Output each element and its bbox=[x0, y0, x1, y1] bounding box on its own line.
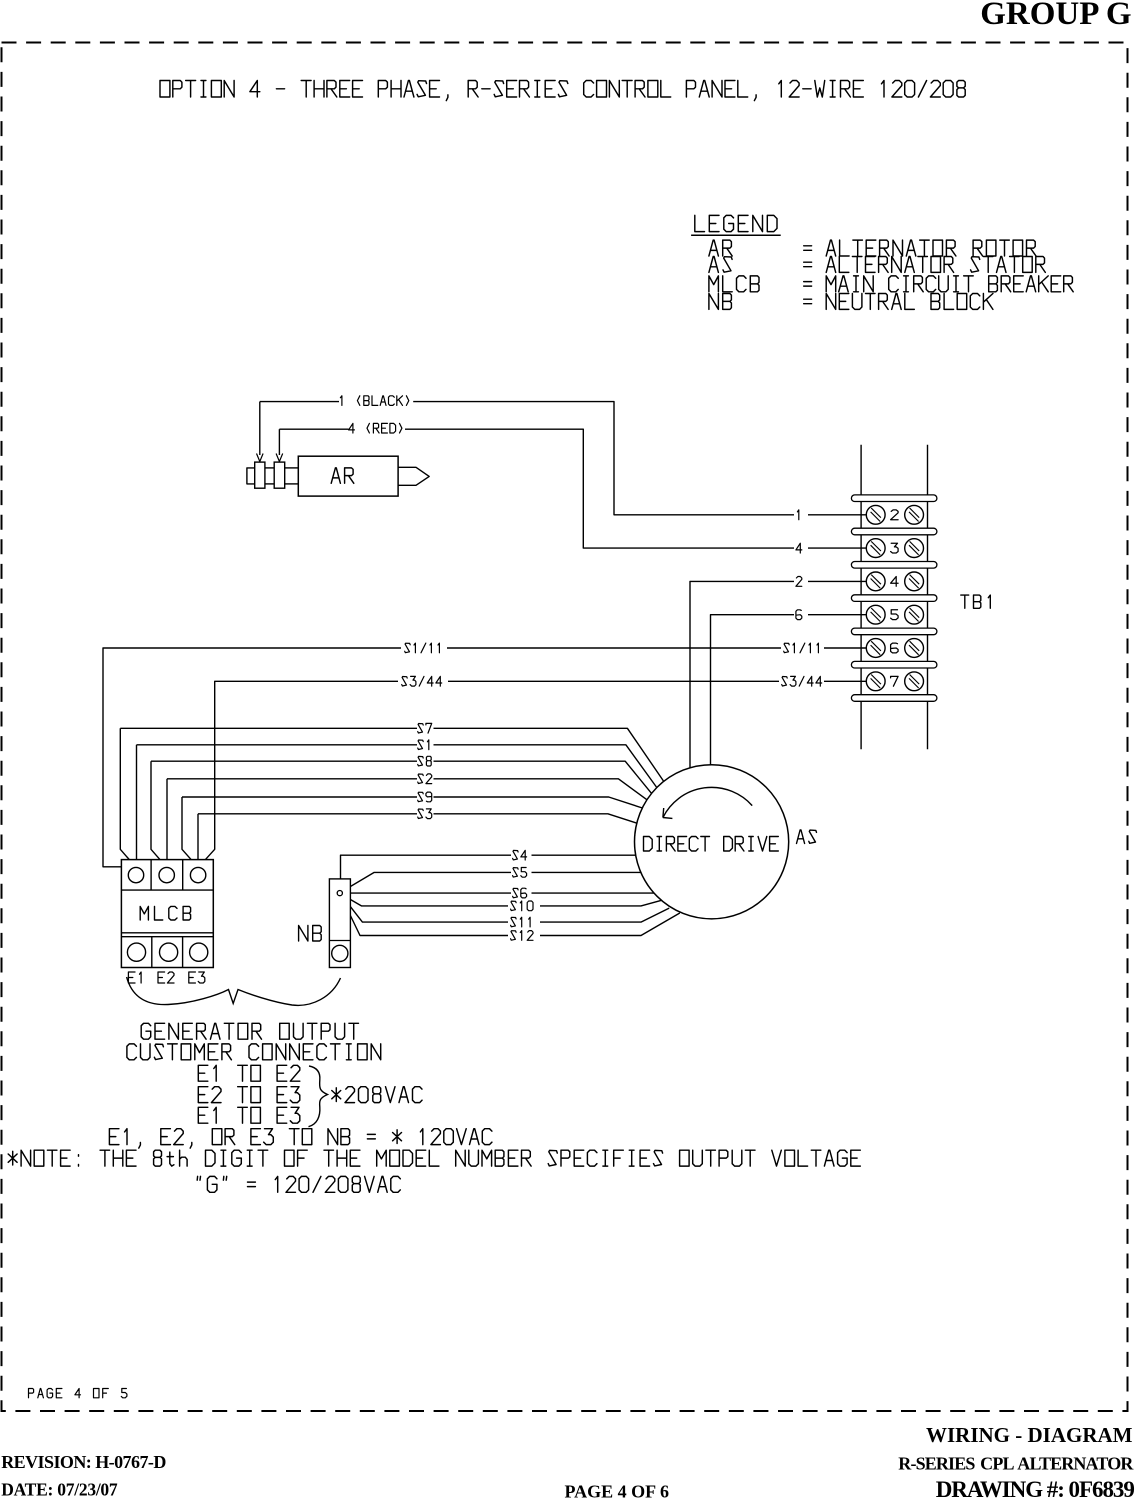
AR shaft segment to body bbox=[285, 467, 299, 469]
page number sheet text bbox=[29, 1389, 127, 1398]
wire S12 from NB node bbox=[341, 896, 508, 936]
wire S1 label bbox=[418, 740, 429, 750]
wire S3 to stator circle bbox=[434, 814, 637, 823]
TB1 terminal number 3 bbox=[891, 543, 899, 553]
svg-text:GROUP G: GROUP G bbox=[980, 0, 1131, 32]
TB1 terminal 4 right screw bbox=[905, 572, 924, 591]
wire S2 label bbox=[418, 774, 432, 784]
legend row NB bbox=[709, 294, 732, 310]
wire S3 horizontal bbox=[198, 813, 417, 815]
E3 label bbox=[189, 972, 205, 983]
MLCB top row dividers bbox=[121, 889, 213, 891]
wire S11 to stator circle bbox=[540, 908, 669, 922]
wire S4 from NB node bbox=[341, 855, 512, 891]
note 120VAC bbox=[109, 1129, 492, 1148]
TB1 terminal number 4 bbox=[891, 577, 899, 587]
alternator stator AS direct-drive circle bbox=[635, 765, 789, 919]
wire S7 to stator circle bbox=[434, 728, 664, 781]
E2 label bbox=[158, 972, 174, 983]
legend heading bbox=[695, 215, 777, 231]
svg-text:DRAWING #: 0F6839: DRAWING #: 0F6839 bbox=[936, 1477, 1135, 1502]
TB1 terminal 2 left screw bbox=[866, 505, 885, 524]
MLCB top terminal E2 circle bbox=[159, 867, 174, 882]
TB1 left rail bbox=[860, 445, 862, 750]
svg-text:R-SERIES CPL ALTERNATOR: R-SERIES CPL ALTERNATOR bbox=[898, 1454, 1134, 1474]
AR shaft left stub bbox=[247, 468, 255, 484]
wire S3/44 middle segment bbox=[448, 680, 779, 682]
wire S1 horizontal bbox=[137, 744, 418, 746]
wire S5 label bbox=[513, 868, 527, 878]
wire S3/44 from MLCB to TB1 terminal 7 bbox=[198, 681, 398, 867]
legend row AS bbox=[709, 257, 732, 273]
wire S8 label bbox=[418, 756, 432, 766]
wire S9 horizontal bbox=[182, 796, 417, 798]
wire S3 label bbox=[418, 809, 432, 819]
wire 4 to TB1 terminal 3 bbox=[405, 429, 794, 548]
svg-text:DATE: 07/23/07: DATE: 07/23/07 bbox=[1, 1480, 118, 1500]
MLCB bottom terminal E3 circle bbox=[190, 943, 208, 961]
wire S1/11 from MLCB to TB1 terminal 6 bbox=[103, 648, 401, 867]
wire S6 from NB node bbox=[344, 892, 511, 894]
wire S10 label bbox=[511, 901, 533, 911]
svg-text:PAGE 4 OF 6: PAGE 4 OF 6 bbox=[565, 1481, 670, 1501]
wire 1 to TB1 terminal 2 bbox=[413, 402, 794, 515]
wire S3 vertical into MLCB E3 bbox=[197, 814, 199, 868]
NB label bbox=[299, 926, 322, 942]
MLCB label bbox=[140, 906, 190, 920]
MLCB top terminal E1 circle bbox=[128, 867, 143, 882]
wire S5 to stator circle bbox=[532, 871, 641, 873]
wire S1/11 middle segment bbox=[447, 647, 781, 649]
TB1 terminal number 2 bbox=[891, 510, 899, 520]
wire S8 to stator circle bbox=[434, 761, 654, 796]
customer connection text bbox=[127, 1044, 381, 1060]
TB1 terminal 7 left screw bbox=[866, 672, 885, 691]
wire 1 arrow into slip ring 1 bbox=[259, 402, 261, 455]
TB1 terminal number 6 bbox=[891, 643, 899, 653]
TB1 terminal 3 right screw bbox=[905, 539, 924, 558]
TB1 terminal 3 left screw bbox=[866, 539, 885, 558]
wire S12 to stator circle bbox=[540, 913, 680, 936]
main line circuit breaker MLCB box bbox=[121, 860, 213, 968]
wire S1 to stator circle bbox=[434, 745, 658, 789]
wire S7 label bbox=[418, 723, 432, 733]
E1 label bbox=[128, 972, 141, 983]
wire S4 to stator circle bbox=[532, 854, 636, 856]
TB1 terminal 5 left screw bbox=[866, 605, 885, 624]
wire 4 label bbox=[349, 423, 402, 433]
wire S11 label bbox=[511, 917, 530, 927]
wire S9 to stator circle bbox=[434, 797, 643, 808]
AR slip ring 1 bbox=[255, 462, 265, 488]
wire 2 from TB1 terminal 4 to stator bbox=[808, 580, 866, 582]
MLCB bottom row dividers bbox=[121, 932, 213, 934]
NB connection node bbox=[337, 891, 342, 896]
wire 4 arrow into slip ring 2 bbox=[278, 429, 280, 455]
wire S8 horizontal bbox=[151, 760, 417, 762]
AR shaft pointed tip bbox=[398, 467, 429, 485]
legend underline bbox=[691, 234, 781, 236]
TB1 separator bar 5 bbox=[851, 628, 937, 635]
TB1 terminal 4 left screw bbox=[866, 572, 885, 591]
wire S3/44 left label bbox=[402, 676, 442, 686]
MLCB bottom terminal E2 circle bbox=[160, 943, 178, 961]
TB1 separator bar 6 bbox=[851, 661, 937, 668]
NB bottom terminal circle bbox=[332, 945, 348, 961]
wire 1 black label leader bbox=[260, 401, 339, 403]
neutral block NB box bbox=[329, 879, 350, 968]
wire S8 vertical into MLCB E2 bbox=[151, 761, 167, 867]
voltage group brace bbox=[309, 1066, 328, 1127]
generator output text bbox=[141, 1023, 358, 1039]
MLCB top terminal E3 circle bbox=[190, 867, 205, 882]
AR label bbox=[331, 468, 354, 483]
wire S9 vertical into MLCB E3 bbox=[182, 797, 198, 867]
wire S2 horizontal bbox=[167, 778, 417, 780]
note E2 TO E3 bbox=[198, 1087, 299, 1103]
title text bbox=[160, 81, 965, 101]
TB1 terminal 6 left screw bbox=[866, 639, 885, 658]
AS label bbox=[797, 830, 817, 844]
wire S2 to stator circle bbox=[434, 779, 650, 802]
wire S1/11 right label bbox=[784, 643, 819, 653]
wire 4 terminal label bbox=[796, 543, 802, 553]
DIRECT DRIVE label bbox=[644, 837, 779, 852]
TB1 separator bar 4 bbox=[851, 595, 937, 602]
wire S2 vertical into MLCB E2 bbox=[166, 779, 168, 868]
note G voltage bbox=[197, 1176, 400, 1192]
legend row MLCB bbox=[709, 276, 759, 292]
wire S10 to stator circle bbox=[540, 900, 662, 906]
wire S3/44 right label bbox=[782, 676, 822, 686]
note model number bbox=[8, 1150, 860, 1166]
TB1 terminal 6 right screw bbox=[905, 639, 924, 658]
wire S9 label bbox=[418, 792, 432, 802]
TB1 terminal 7 right screw bbox=[905, 672, 924, 691]
wire 4 red label leader bbox=[279, 428, 348, 430]
wire S7 vertical into MLCB E1 bbox=[120, 728, 136, 867]
customer connection brace bbox=[127, 977, 341, 1005]
TB1 separator bar 7 bbox=[851, 695, 937, 702]
TB1 label bbox=[961, 595, 991, 608]
TB1 terminal number 5 bbox=[891, 610, 899, 620]
wire S1 vertical into MLCB E1 bbox=[136, 745, 138, 868]
TB1 right rail bbox=[927, 445, 929, 750]
TB1 separator bar 1 bbox=[851, 495, 937, 502]
TB1 separator bar 3 bbox=[851, 562, 937, 569]
wire S5 from NB node bbox=[342, 872, 512, 891]
AR slip ring 2 bbox=[274, 462, 285, 488]
wire 1 label bbox=[340, 396, 408, 406]
svg-text:WIRING - DIAGRAM: WIRING - DIAGRAM bbox=[926, 1423, 1133, 1447]
wire S11 from NB node bbox=[342, 895, 509, 922]
wire S12 label bbox=[511, 931, 533, 941]
wire S6 to stator circle bbox=[532, 892, 655, 894]
wire 2 terminal label bbox=[796, 577, 802, 587]
note 208VAC bbox=[332, 1087, 422, 1103]
rotation arrow arc bbox=[663, 787, 752, 817]
wire S7 horizontal bbox=[120, 727, 417, 729]
wire 1 terminal label bbox=[797, 510, 798, 520]
wire 6 terminal label bbox=[796, 610, 802, 620]
MLCB bottom terminal E1 circle bbox=[127, 943, 145, 961]
wire S6 label bbox=[513, 888, 527, 898]
rotation arrowhead bbox=[662, 808, 665, 818]
TB1 terminal number 7 bbox=[891, 676, 899, 686]
note E1 TO E3 bbox=[198, 1107, 299, 1123]
wire S10 from NB node bbox=[342, 895, 508, 906]
wire 6 from TB1 terminal 5 to stator bbox=[808, 614, 866, 616]
wire S1/11 left label bbox=[405, 643, 440, 653]
legend row AR bbox=[709, 240, 732, 256]
TB1 separator bar 2 bbox=[851, 528, 937, 535]
NB divider bbox=[329, 940, 350, 942]
TB1 terminal 5 right screw bbox=[905, 605, 924, 624]
wire S4 label bbox=[513, 850, 527, 860]
AR shaft segment between rings bbox=[265, 467, 274, 469]
svg-text:REVISION: H-0767-D: REVISION: H-0767-D bbox=[1, 1452, 166, 1472]
TB1 terminal 2 right screw bbox=[905, 505, 924, 524]
alternator rotor AR body bbox=[298, 456, 398, 496]
note E1 TO E2 bbox=[198, 1065, 299, 1081]
